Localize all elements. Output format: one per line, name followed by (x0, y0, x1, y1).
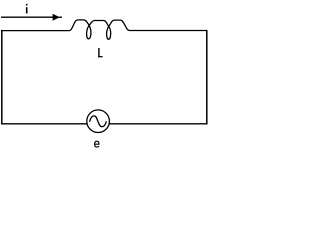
wire bottom-left segment (1, 123, 87, 125)
AC source V1 sine wave (90, 116, 107, 127)
label e (source) (95, 141, 99, 147)
AC source V1 circle (87, 110, 110, 133)
label i (current) (26, 4, 28, 14)
wire top-right segment (129, 30, 207, 32)
wire bottom-right segment (109, 123, 207, 125)
current arrow tip line (58, 16, 62, 18)
wire top-left segment (1, 30, 70, 32)
wire left side (1, 30, 3, 125)
current arrow head (53, 14, 60, 21)
current arrow shaft (1, 16, 54, 18)
wire right side (206, 30, 208, 125)
label L (inductor value) (98, 48, 103, 57)
inductor L1 coil (70, 20, 129, 39)
